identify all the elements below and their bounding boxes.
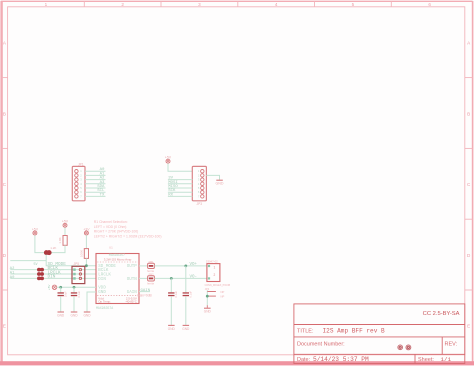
svg-text:GND: GND — [57, 313, 65, 317]
svg-text:LEFT = VDD (0 Ohm): LEFT = VDD (0 Ohm) — [94, 225, 127, 229]
svg-text:JP3: JP3 — [197, 202, 203, 206]
wire A2 from JP1 pin3 — [85, 179, 106, 181]
title block — [294, 304, 465, 364]
svg-text:3.2W I2S Mono Amp: 3.2W I2S Mono Amp — [104, 258, 132, 262]
wire +5V middle to R2 — [64, 228, 66, 236]
svg-text:GND: GND — [98, 291, 106, 295]
capacitor C1 — [58, 287, 68, 311]
wire IC GND pin down — [87, 292, 96, 312]
wire BCLK — [44, 269, 96, 271]
wire SDA from JP1 pin5 — [85, 187, 106, 189]
wire R1 to SD_MODE — [46, 255, 96, 266]
svg-text:GND: GND — [168, 327, 176, 331]
wire TX from JP1 pin7 — [85, 195, 106, 197]
svg-text:0.1uF: 0.1uF — [174, 290, 178, 297]
junction SD_MODE/R3 — [85, 264, 88, 267]
svg-text:REV:: REV: — [445, 341, 458, 347]
ferrite bead FB1 — [147, 260, 154, 273]
svg-text:0.1uF: 0.1uF — [77, 290, 81, 297]
svg-text:1: 1 — [45, 2, 48, 7]
svg-text:CONN_MOLEX_PICOB: CONN_MOLEX_PICOB — [205, 284, 231, 287]
wire A3 from JP1 pin4 — [85, 183, 106, 185]
supply +3V — [83, 227, 90, 235]
svg-text:GND: GND — [204, 309, 212, 313]
svg-text:+5V: +5V — [47, 285, 51, 290]
jumper R6 on DIN — [37, 277, 44, 281]
wire RX from JP3 pin7 — [168, 195, 192, 197]
jumper JP4 — [205, 288, 225, 308]
junction VO- — [170, 277, 173, 280]
svg-text:-40-85°C: -40-85°C — [125, 300, 137, 304]
svg-text:GND: GND — [182, 327, 190, 331]
note R1 channel selection — [94, 220, 162, 238]
svg-text:1.0K: 1.0K — [58, 237, 62, 243]
svg-text:A1: A1 — [10, 271, 15, 275]
supply +5V middle — [62, 220, 69, 228]
svg-text:ferrite: ferrite — [147, 269, 154, 273]
supply +5V left — [32, 227, 39, 235]
svg-text:Document Number:: Document Number: — [297, 341, 345, 347]
frame column ticks top — [84, 1, 391, 7]
svg-text:4: 4 — [275, 2, 278, 7]
svg-text:VO+: VO+ — [190, 263, 198, 267]
svg-text:0.1uF: 0.1uF — [189, 290, 193, 297]
svg-text:DIN: DIN — [48, 275, 56, 280]
logo CC badge 1 — [398, 345, 403, 350]
svg-text:OUTN: OUTN — [127, 278, 138, 282]
wire FB2 to speaker connector pin2 — [154, 277, 207, 279]
wire OUTN to FB2 — [139, 277, 148, 279]
svg-text:RIGHT = 270K (94*VDD-100): RIGHT = 270K (94*VDD-100) — [94, 230, 139, 234]
wire +5V left down to R1 — [35, 235, 45, 252]
wire +5V to JP3 pin1 — [168, 163, 192, 171]
svg-text:53047-02: 53047-02 — [206, 259, 218, 263]
wire R2 bottom to R1 right — [51, 245, 65, 252]
frame bottom band — [0, 361, 474, 365]
capacitor C3 — [168, 278, 178, 325]
wire FB1 to speaker connector pin1 — [154, 265, 207, 267]
frame row letters left — [3, 41, 7, 329]
svg-text:Date:: Date: — [297, 357, 311, 363]
svg-text:LEFT/2 + RIGHT/2 = 1.002M (331: LEFT/2 + RIGHT/2 = 1.002M (331*VDD-100) — [94, 234, 162, 238]
wire R3 to SD_MODE junction — [85, 258, 87, 265]
svg-text:R1 Channel Selection:: R1 Channel Selection: — [94, 220, 128, 224]
svg-text:BCLK: BCLK — [98, 269, 109, 273]
svg-text:1.2K: 1.2K — [50, 246, 56, 250]
resistor R3 100K — [79, 249, 88, 259]
ground under C1 — [57, 312, 65, 317]
svg-text:100K: 100K — [79, 250, 83, 257]
svg-text:Sheet:: Sheet: — [418, 357, 434, 363]
ground under C4 — [182, 325, 190, 330]
svg-text:NP: NP — [221, 295, 225, 299]
resistor R1 0-ohm jumper — [44, 246, 56, 255]
ground under JP3 — [216, 180, 224, 185]
connector JP1 — [72, 162, 85, 200]
connector X1 speaker — [205, 259, 231, 287]
wire SCL from JP1 pin6 — [85, 191, 106, 193]
svg-text:MAX98357A: MAX98357A — [96, 306, 113, 310]
ground under JP4 — [204, 308, 212, 313]
svg-text:NP: NP — [221, 290, 225, 294]
svg-text:5/14/23 5:37 PM: 5/14/23 5:37 PM — [313, 356, 369, 363]
svg-text:A0: A0 — [10, 276, 15, 280]
svg-text:VO-: VO- — [190, 276, 198, 280]
svg-text:JP1: JP1 — [78, 162, 84, 166]
junction VO+ — [184, 265, 187, 268]
svg-text:DIN: DIN — [98, 278, 106, 282]
svg-text:GAIN: GAIN — [141, 289, 151, 293]
wire MISO from JP3 pin5 — [168, 187, 192, 189]
svg-text:GND: GND — [70, 313, 78, 317]
svg-text:B: B — [3, 111, 6, 116]
svg-text:OUTP: OUTP — [127, 265, 138, 269]
wire A1 stub from border — [10, 273, 37, 275]
jumper block JP5 — [72, 262, 85, 284]
svg-text:I2S Amp BFF rev B: I2S Amp BFF rev B — [323, 328, 386, 335]
svg-text:3: 3 — [198, 2, 201, 7]
wire DIN — [44, 277, 96, 279]
ground under C2 — [70, 312, 78, 317]
capacitor C2 — [71, 287, 81, 311]
connector JP3 — [192, 166, 206, 206]
svg-text:2: 2 — [214, 273, 216, 277]
wire OUTP to FB1 — [139, 265, 148, 267]
ground under IC GND — [83, 312, 91, 317]
frame column numbers — [45, 2, 432, 7]
capacitor C4 — [183, 266, 193, 325]
svg-text:E: E — [3, 324, 6, 329]
resistor R2 1.0K — [58, 236, 67, 246]
svg-text:JP5: JP5 — [74, 262, 80, 266]
svg-text:GND: GND — [216, 181, 224, 185]
svg-text:2: 2 — [121, 2, 124, 7]
svg-text:ferrite: ferrite — [147, 281, 154, 285]
wire SCK from JP3 pin6 — [168, 191, 192, 193]
supply +5V above JP3 — [165, 156, 172, 164]
svg-text:E: E — [467, 324, 470, 329]
svg-text:Op Temp:: Op Temp: — [98, 300, 111, 304]
junction C2 — [73, 286, 76, 289]
svg-text:TITLE:: TITLE: — [297, 328, 314, 334]
svg-text:U1: U1 — [109, 245, 113, 249]
svg-text:TX: TX — [100, 193, 105, 197]
svg-text:B: B — [467, 111, 470, 116]
wire GAIN stub — [139, 291, 150, 293]
svg-text:CC 2.5-BY-SA: CC 2.5-BY-SA — [423, 311, 460, 317]
jumper R5 on LRCLK — [37, 272, 44, 276]
svg-text:1/1: 1/1 — [441, 356, 452, 363]
wire A0 from JP1 pin1 — [85, 170, 106, 172]
wire MOSI from JP3 pin4 — [168, 183, 192, 185]
wire 3V from JP3 pin3 — [168, 179, 192, 181]
frame row ticks right — [465, 78, 473, 290]
ferrite bead FB2 — [147, 272, 154, 285]
frame row letters right — [467, 41, 471, 329]
wire VDD rail — [57, 286, 96, 288]
ground under C3 — [168, 325, 176, 330]
supply +5V at VDD rail — [47, 285, 57, 290]
wire A1 from JP1 pin2 — [85, 174, 106, 176]
svg-text:GND: GND — [83, 313, 91, 317]
junction C1 — [59, 286, 62, 289]
svg-text:1: 1 — [214, 265, 216, 269]
svg-text:Gain=9dB: Gain=9dB — [137, 294, 153, 298]
wire border stub to node — [10, 260, 46, 262]
svg-text:RX: RX — [168, 193, 173, 197]
svg-text:A2: A2 — [10, 267, 15, 271]
svg-text:5: 5 — [352, 2, 355, 7]
svg-text:LRCLK: LRCLK — [98, 273, 111, 277]
wire +3V to R3 — [85, 235, 87, 248]
wire A2 stub from border — [10, 269, 37, 271]
wire LRCLK — [44, 273, 96, 275]
jumper R4 on BCLK — [37, 268, 44, 272]
svg-text:GAIN: GAIN — [127, 291, 138, 295]
svg-text:10uF: 10uF — [64, 291, 68, 297]
svg-text:6: 6 — [428, 2, 431, 7]
frame row ticks left — [2, 78, 8, 290]
logo CC badge 2 — [406, 345, 411, 350]
wire JP3 pin2 to ground — [206, 175, 219, 179]
op-amp U1 MAX98357 body — [96, 245, 139, 310]
wire A0 stub from border — [10, 277, 37, 279]
